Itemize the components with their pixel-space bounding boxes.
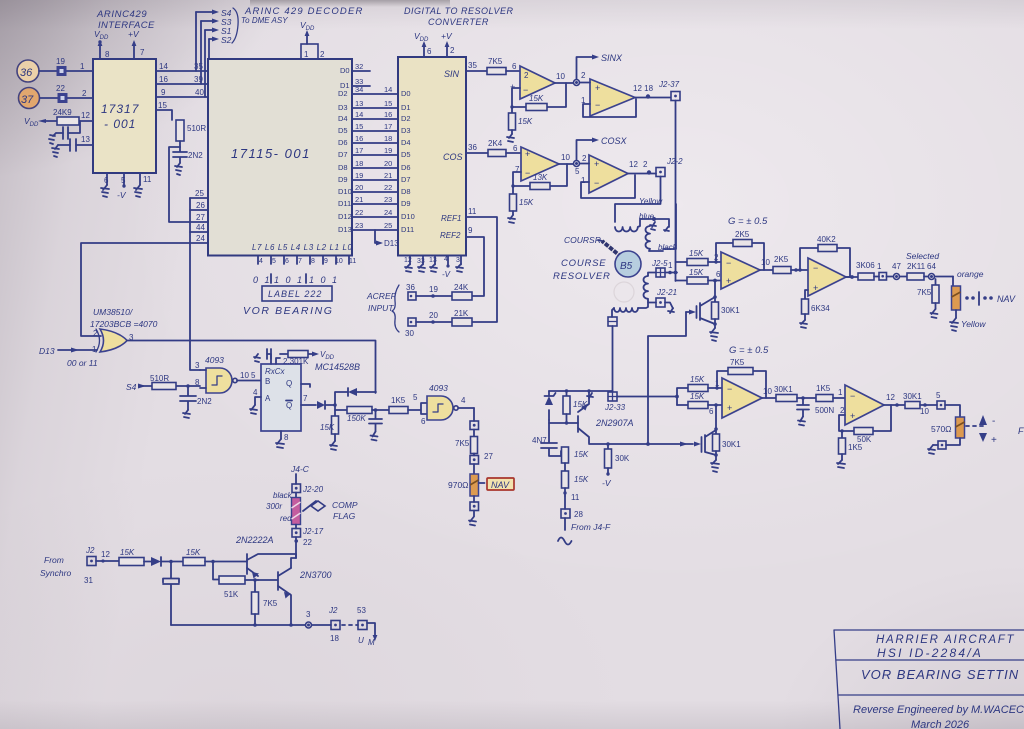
input circle 37 bbox=[19, 88, 40, 109]
wire A1 output to node bbox=[555, 71, 586, 86]
svg-text:J2-5: J2-5 bbox=[651, 259, 668, 268]
svg-text:15K: 15K bbox=[519, 198, 534, 207]
NAND gate U5A 4093 bbox=[195, 361, 237, 393]
wire decoder D8 pin 18 to converter D6 pin 20 bbox=[338, 159, 411, 172]
node circle 47 bbox=[892, 262, 907, 280]
svg-text:19: 19 bbox=[429, 285, 438, 294]
connector box 28 bbox=[561, 496, 583, 530]
wire decoder D6 pin 16 to converter D4 pin 18 bbox=[338, 134, 411, 147]
wire IC1 pin9 to decoder pin 40 bbox=[156, 88, 208, 97]
svg-text:13: 13 bbox=[355, 99, 363, 108]
svg-text:1 0 1: 1 0 1 bbox=[274, 275, 304, 285]
svg-text:17: 17 bbox=[384, 122, 392, 131]
wire 2N2 node to decoder pin 27 bbox=[169, 147, 208, 222]
label UM38510 / 4070 bbox=[90, 307, 158, 329]
feedback resistor 50K (A8) bbox=[839, 405, 891, 444]
svg-text:G = ± 0.5: G = ± 0.5 bbox=[729, 345, 769, 356]
decoder VDD pin notch (pins 1,2) bbox=[300, 20, 325, 59]
svg-text:J2-2: J2-2 bbox=[666, 157, 683, 166]
feedback resistor 7K5 (A7) bbox=[715, 358, 766, 398]
resistor 15K (lower non-inverting) bbox=[677, 392, 722, 416]
svg-text:27: 27 bbox=[484, 452, 493, 461]
svg-text:−: − bbox=[727, 384, 732, 394]
wires decoder pins 25,26,44 to vertical bus bbox=[190, 189, 208, 232]
resistor 7K5 to ground (output divider) bbox=[917, 279, 939, 309]
svg-text:From J4-F: From J4-F bbox=[571, 522, 611, 532]
op-amp A5 (upper gain) bbox=[721, 252, 760, 289]
svg-text:Yellow: Yellow bbox=[961, 319, 986, 329]
label MC14528B bbox=[315, 362, 360, 372]
connector box (NAV chain top) bbox=[470, 421, 479, 437]
resistor 30K1 (series lower) bbox=[774, 385, 816, 402]
svg-text:36: 36 bbox=[20, 67, 33, 79]
svg-text:23: 23 bbox=[384, 195, 392, 204]
svg-text:+: + bbox=[850, 411, 855, 421]
capacitor 4N7 bbox=[532, 423, 561, 456]
svg-text:7: 7 bbox=[303, 394, 308, 403]
svg-text:7K5: 7K5 bbox=[730, 358, 745, 367]
input S4 with 510R bbox=[126, 374, 200, 392]
svg-text:ARINC 429 DECODER: ARINC 429 DECODER bbox=[244, 6, 364, 17]
resistor 510R bbox=[176, 120, 206, 147]
svg-text:HARRIER AIRCRAFT: HARRIER AIRCRAFT bbox=[876, 634, 1015, 646]
svg-text:+V: +V bbox=[441, 31, 453, 41]
svg-text:2N2: 2N2 bbox=[188, 151, 203, 160]
svg-text:6: 6 bbox=[104, 176, 109, 185]
svg-text:U: U bbox=[358, 636, 364, 645]
winding L4 (horizontal coil lower) bbox=[612, 301, 648, 317]
svg-text:2K5: 2K5 bbox=[735, 230, 750, 239]
svg-text:20: 20 bbox=[355, 183, 363, 192]
svg-text:3K06: 3K06 bbox=[856, 261, 875, 270]
lamp 570R orange (flag) bbox=[931, 417, 965, 445]
svg-text:G = ± 0.5: G = ± 0.5 bbox=[728, 216, 768, 227]
svg-text:39: 39 bbox=[194, 75, 203, 84]
svg-text:LABEL 222: LABEL 222 bbox=[268, 289, 322, 299]
winding L2 (vertical coil, black) bbox=[646, 204, 678, 252]
svg-text:4: 4 bbox=[253, 388, 258, 397]
svg-text:500N: 500N bbox=[815, 406, 834, 415]
svg-text:16: 16 bbox=[159, 75, 168, 84]
svg-text:10: 10 bbox=[240, 371, 249, 380]
svg-text:26: 26 bbox=[196, 201, 205, 210]
svg-text:J4-C: J4-C bbox=[290, 464, 310, 474]
svg-text:40: 40 bbox=[195, 88, 204, 97]
svg-text:12: 12 bbox=[886, 393, 895, 402]
svg-text:−: − bbox=[813, 263, 818, 273]
connector box 5 (lower) bbox=[936, 391, 960, 417]
svg-text:34: 34 bbox=[355, 85, 363, 94]
capacitor 2N2 (S4 input) bbox=[180, 386, 212, 410]
svg-text:8: 8 bbox=[311, 258, 315, 265]
wire connector to J2-33 bbox=[612, 326, 614, 392]
filter box on pin 2 line, label 22 bbox=[40, 84, 93, 103]
svg-text:2K4: 2K4 bbox=[488, 139, 503, 148]
svg-text:-V: -V bbox=[602, 478, 612, 488]
resolver rotor B5 bbox=[615, 251, 641, 277]
svg-text:VOR BEARING: VOR BEARING bbox=[243, 305, 334, 317]
resistor 24K9 on pin 12 with VDD arrow bbox=[24, 108, 93, 128]
connector J2 pin 31 bbox=[84, 546, 119, 585]
capacitor on pin 12 node bbox=[53, 121, 80, 139]
node SINX arrow bbox=[577, 53, 624, 80]
transistor Q3 2N2907A bbox=[549, 391, 634, 443]
svg-text:D7: D7 bbox=[401, 175, 411, 184]
svg-text:9: 9 bbox=[324, 258, 328, 265]
IC U6 MC14528B body bbox=[261, 364, 301, 431]
svg-text:4093: 4093 bbox=[205, 355, 224, 365]
svg-text:2N2907A: 2N2907A bbox=[595, 418, 634, 428]
connector J2-33 bbox=[604, 392, 679, 412]
svg-text:4: 4 bbox=[259, 258, 263, 265]
capacitor (synchro filter) bbox=[163, 562, 179, 626]
svg-text:VOR BEARING SETTIN: VOR BEARING SETTIN bbox=[861, 667, 1019, 682]
svg-text:3: 3 bbox=[306, 610, 311, 619]
svg-text:15K: 15K bbox=[518, 117, 533, 126]
svg-text:Selected: Selected bbox=[906, 251, 939, 261]
wire IC1 pin16 to decoder pin 39 bbox=[156, 75, 208, 84]
IC U2 17115-001 body bbox=[208, 59, 352, 256]
svg-text:D9: D9 bbox=[401, 199, 411, 208]
svg-text:16: 16 bbox=[384, 110, 392, 119]
label ARINC 429 DECODER bbox=[244, 6, 364, 17]
svg-text:20: 20 bbox=[429, 311, 438, 320]
svg-text:15K: 15K bbox=[186, 548, 201, 557]
svg-text:D0: D0 bbox=[401, 89, 411, 98]
svg-text:D13: D13 bbox=[39, 346, 55, 356]
resistor 7K5 (SIN) bbox=[487, 57, 520, 75]
svg-text:10: 10 bbox=[920, 407, 929, 416]
label ARINC429 INTERFACE bbox=[96, 9, 155, 31]
resistor 15K (to base) bbox=[183, 548, 247, 566]
resistor 24K (bottom) bbox=[452, 309, 472, 326]
op-amp A4 (COS stage 2) bbox=[580, 155, 629, 193]
resistor 15K (non-inverting input, upper) bbox=[676, 268, 722, 284]
resistor 300R magenta bbox=[266, 498, 301, 525]
svg-text:22: 22 bbox=[355, 208, 363, 217]
label ACREF INPUT with brace bbox=[366, 285, 399, 332]
wire A4 output to J2-2 bbox=[628, 160, 656, 175]
IC U3 converter body bbox=[398, 57, 466, 256]
svg-text:8: 8 bbox=[284, 433, 289, 442]
comp flag chain : label J4-C bbox=[290, 464, 310, 484]
svg-text:17: 17 bbox=[355, 146, 363, 155]
resistor 15K (one-shot) bbox=[320, 405, 339, 441]
svg-text:15: 15 bbox=[158, 101, 167, 110]
svg-text:15: 15 bbox=[384, 99, 392, 108]
ground (6K34) bbox=[800, 320, 807, 328]
comp flag symbol bbox=[303, 500, 358, 521]
node COSX arrow bbox=[577, 136, 628, 161]
wire Q5 gate feed down to lower FET bbox=[648, 312, 686, 444]
IC U1 bottom pins 6,5,11 bbox=[104, 173, 152, 200]
svg-text:2: 2 bbox=[581, 71, 586, 80]
XOR gate U4 4070 bbox=[92, 329, 134, 354]
resistor 15K (bias chain 2) bbox=[562, 471, 589, 502]
svg-text:30K1: 30K1 bbox=[722, 440, 741, 449]
svg-text:13: 13 bbox=[81, 135, 90, 144]
svg-text:3: 3 bbox=[456, 257, 460, 264]
svg-text:+: + bbox=[595, 83, 600, 93]
resistor 1K5 (A8 input) bbox=[816, 384, 845, 402]
svg-text:30K1: 30K1 bbox=[774, 385, 793, 394]
svg-text:8: 8 bbox=[105, 50, 110, 59]
svg-text:18: 18 bbox=[384, 134, 392, 143]
svg-text:COURSE: COURSE bbox=[561, 258, 606, 269]
svg-text:2: 2 bbox=[320, 50, 325, 59]
resistor 1K5 to ground (A8) bbox=[839, 429, 863, 460]
label G=+-0.5 (upper) bbox=[728, 216, 768, 227]
wire decoder D4 pin 14 to converter D2 pin 16 bbox=[338, 110, 411, 123]
wire 970R down with connector bbox=[469, 496, 479, 526]
resistor 30K1 (Q4) bbox=[713, 427, 742, 460]
svg-text:15K: 15K bbox=[690, 392, 705, 401]
svg-text:2: 2 bbox=[582, 154, 587, 163]
svg-text:14: 14 bbox=[355, 110, 363, 119]
resistor 15K (synchro input) bbox=[119, 548, 151, 566]
ground (pin13 cap) bbox=[52, 145, 59, 157]
node: LABEL 222 box bbox=[262, 286, 332, 301]
svg-text:2K5: 2K5 bbox=[774, 255, 789, 264]
svg-text:Reverse Engineered by M.WACEC: Reverse Engineered by M.WACEC bbox=[853, 704, 1024, 716]
connector box (flag return) bbox=[933, 441, 946, 449]
label black bbox=[273, 491, 293, 500]
label DIGITAL TO RESOLVER CONVERTER bbox=[404, 6, 514, 27]
ground (970R upper) bbox=[950, 318, 958, 331]
svg-text:+: + bbox=[813, 283, 818, 293]
wire XOR output long feedback bbox=[127, 341, 376, 394]
resistor 2K11 bbox=[907, 262, 928, 280]
connector J2-21 bbox=[648, 288, 677, 309]
svg-text:6: 6 bbox=[427, 47, 432, 56]
svg-text:To DME ASY: To DME ASY bbox=[241, 16, 288, 25]
svg-text:28: 28 bbox=[574, 510, 583, 519]
svg-text:4: 4 bbox=[444, 256, 448, 263]
svg-text:6: 6 bbox=[512, 62, 517, 71]
diode (synchro) bbox=[151, 557, 183, 566]
svg-text:510R: 510R bbox=[150, 374, 169, 383]
svg-text:+: + bbox=[991, 435, 997, 446]
ghost circle (faint) bbox=[614, 282, 634, 302]
connector box ACREF 36 bbox=[406, 283, 452, 300]
svg-text:COMP: COMP bbox=[332, 500, 358, 510]
svg-text:−: − bbox=[595, 100, 600, 110]
title text HARRIER bbox=[853, 634, 1024, 729]
svg-text:VDD: VDD bbox=[414, 31, 429, 43]
resistor 7K5 (Q1 emitter) bbox=[252, 578, 278, 625]
op-amp A6 (upper output) bbox=[808, 258, 846, 296]
svg-text:23: 23 bbox=[355, 221, 363, 230]
ground (conv pin 33) bbox=[418, 264, 425, 272]
pickoff symbols at blue node bbox=[650, 222, 669, 231]
wire decoder D5 pin 15 to converter D3 pin 17 bbox=[338, 122, 411, 135]
svg-text:−: − bbox=[525, 168, 530, 178]
svg-text:12 18: 12 18 bbox=[633, 84, 654, 93]
svg-text:6: 6 bbox=[709, 407, 714, 416]
node D13 branch arrow bbox=[375, 230, 399, 248]
svg-text:32: 32 bbox=[355, 62, 363, 71]
svg-text:D4: D4 bbox=[401, 138, 411, 147]
svg-text:44: 44 bbox=[196, 223, 205, 232]
svg-text:D6: D6 bbox=[338, 138, 348, 147]
ground (flag return) bbox=[928, 445, 935, 454]
label From Synchro bbox=[40, 555, 71, 578]
svg-text:300r: 300r bbox=[266, 502, 282, 511]
svg-text:30K1: 30K1 bbox=[903, 392, 922, 401]
svg-text:ACREF: ACREF bbox=[366, 291, 397, 301]
node circle 64 bbox=[927, 262, 953, 280]
op-amp A8 (lower output) bbox=[840, 385, 884, 425]
svg-text:2.301K: 2.301K bbox=[283, 357, 309, 366]
svg-text:J2: J2 bbox=[328, 606, 338, 615]
svg-text:RESOLVER: RESOLVER bbox=[553, 271, 611, 282]
svg-text:D5: D5 bbox=[338, 126, 348, 135]
svg-text:24: 24 bbox=[196, 234, 205, 243]
resistor 30K1 (Q5 drain) bbox=[712, 297, 741, 328]
U6 Q output stub bbox=[301, 384, 310, 387]
svg-text:−: − bbox=[594, 178, 599, 188]
svg-text:9: 9 bbox=[468, 226, 473, 235]
svg-text:3: 3 bbox=[195, 361, 200, 370]
svg-text:21: 21 bbox=[384, 171, 392, 180]
wire Q3 emitter to FET gate bbox=[589, 443, 648, 445]
svg-text:-V: -V bbox=[117, 190, 127, 200]
svg-text:1 0 1: 1 0 1 bbox=[309, 275, 339, 285]
svg-text:36: 36 bbox=[468, 143, 477, 152]
label orange bbox=[957, 269, 984, 279]
decoder data pin stubs 32,33 (D0,D1) bbox=[340, 62, 370, 90]
svg-text:J2: J2 bbox=[85, 546, 95, 555]
svg-text:5: 5 bbox=[936, 391, 941, 400]
svg-text:11: 11 bbox=[468, 207, 477, 216]
ground (Q4/30K1) bbox=[711, 460, 719, 472]
svg-text:4: 4 bbox=[461, 396, 466, 405]
svg-text:6: 6 bbox=[513, 144, 518, 153]
svg-text:FLAG: FLAG bbox=[333, 511, 356, 521]
svg-text:9: 9 bbox=[161, 88, 166, 97]
svg-text:2: 2 bbox=[82, 89, 87, 98]
svg-text:Q: Q bbox=[286, 379, 292, 388]
connector box 27 bbox=[470, 452, 493, 474]
feedback loop (A4) bbox=[581, 175, 635, 198]
wire A6 output bbox=[846, 275, 858, 279]
pickoff symbol at J2-21 bbox=[668, 308, 674, 313]
svg-text:+: + bbox=[594, 159, 599, 169]
svg-text:0 1: 0 1 bbox=[253, 275, 272, 285]
dashed link and flag arrows bbox=[966, 415, 1024, 446]
svg-text:19: 19 bbox=[355, 171, 363, 180]
svg-text:B: B bbox=[265, 377, 270, 386]
wire gate 2 output down bbox=[458, 396, 474, 421]
svg-text:B5: B5 bbox=[620, 261, 633, 272]
svg-text:Yellow: Yellow bbox=[639, 197, 663, 206]
svg-text:−: − bbox=[523, 85, 528, 95]
transistor Q1 2N2222A bbox=[235, 535, 296, 579]
svg-text:Synchro: Synchro bbox=[40, 568, 71, 578]
wire A2 output to J2-37 bbox=[633, 84, 670, 99]
svg-text:21: 21 bbox=[355, 195, 363, 204]
svg-text:17317: 17317 bbox=[101, 102, 140, 116]
svg-text:D7: D7 bbox=[338, 150, 348, 159]
label G=+-0.5 (lower) bbox=[729, 345, 769, 356]
svg-text:19: 19 bbox=[384, 146, 392, 155]
wire decoder D11 pin 21 to converter D9 pin 23 bbox=[338, 195, 411, 208]
wire A5 output bbox=[760, 258, 773, 270]
svg-text:11: 11 bbox=[571, 493, 580, 502]
resistor 1K5 (to gate 2) bbox=[389, 393, 427, 426]
wire gate1 out to U6 pin 5 bbox=[237, 371, 261, 381]
feedback resistor 13K (A3) bbox=[513, 164, 567, 190]
svg-text:570Ω: 570Ω bbox=[931, 424, 952, 434]
svg-text:J2-20: J2-20 bbox=[302, 485, 324, 494]
zener diode CR1 bbox=[545, 391, 556, 420]
svg-text:D6: D6 bbox=[401, 163, 411, 172]
svg-text:D8: D8 bbox=[338, 163, 348, 172]
node dot at J2-5 junction bbox=[674, 271, 678, 275]
IC U1 17317-001 body bbox=[93, 59, 156, 173]
svg-text:-V: -V bbox=[442, 270, 451, 279]
svg-text:20: 20 bbox=[384, 159, 392, 168]
svg-text:D12: D12 bbox=[338, 212, 352, 221]
wire IC1 pin14 to decoder pin 35 bbox=[156, 62, 208, 71]
svg-text:NAV: NAV bbox=[997, 294, 1016, 304]
resistor 6K34 to ground (A6) bbox=[802, 290, 831, 320]
label 4093 (gate 1) bbox=[205, 355, 224, 365]
wire COS pin 36 bbox=[466, 143, 488, 153]
svg-text:22: 22 bbox=[303, 538, 312, 547]
svg-text:L7 L6 L5 L4 L3 L2 L1 L0: L7 L6 L5 L4 L3 L2 L1 L0 bbox=[252, 243, 353, 252]
feedback resistor 15K (A1) bbox=[512, 83, 566, 111]
svg-text:orange: orange bbox=[957, 269, 984, 279]
svg-text:D3: D3 bbox=[401, 126, 411, 135]
svg-text:24: 24 bbox=[384, 208, 392, 217]
lamp 970R orange (upper NAV) bbox=[952, 277, 987, 330]
svg-text:2: 2 bbox=[840, 406, 845, 415]
svg-text:D9: D9 bbox=[338, 175, 348, 184]
svg-text:1K5: 1K5 bbox=[391, 396, 406, 405]
svg-text:+V: +V bbox=[128, 29, 140, 39]
capacitor 500N bbox=[797, 398, 834, 417]
svg-text:Q: Q bbox=[286, 401, 292, 410]
svg-text:12: 12 bbox=[81, 111, 90, 120]
svg-text:1: 1 bbox=[304, 50, 309, 59]
resistor 15K to ground (A3) bbox=[510, 184, 534, 215]
converter bottom pins 12,33,13,4,3 bbox=[404, 256, 461, 280]
svg-text:COURSR: COURSR bbox=[564, 235, 601, 245]
ground (one-shot 15K) bbox=[330, 441, 337, 450]
ground (2N2) bbox=[175, 163, 182, 175]
converter power pins VDD +V bbox=[414, 31, 455, 57]
connector J2 pin 18 bbox=[328, 606, 358, 643]
power pin VDD (pin 8) bbox=[94, 29, 110, 59]
svg-text:From: From bbox=[44, 555, 64, 565]
node 3 output circle bbox=[306, 610, 332, 628]
svg-text:SIN: SIN bbox=[444, 69, 460, 79]
wire J2-2 down to resolver windings, label Yellow bbox=[615, 177, 663, 223]
resistor 7K5 (NAV chain) bbox=[455, 437, 478, 456]
svg-text:F: F bbox=[1018, 426, 1024, 436]
svg-text:- 001: - 001 bbox=[104, 117, 136, 131]
svg-text:−: − bbox=[726, 258, 731, 268]
ground (7K5 divider) bbox=[931, 309, 938, 318]
connector J2-37 bbox=[658, 80, 680, 101]
svg-text:6: 6 bbox=[285, 258, 289, 265]
U6 Qbar output pin 7 with diode bbox=[301, 394, 337, 409]
NAV flag box bbox=[479, 478, 515, 490]
svg-text:31: 31 bbox=[84, 576, 93, 585]
ground (pin12 cap) bbox=[49, 135, 55, 144]
wire decoder pin 24 to XOR input bbox=[81, 234, 208, 336]
